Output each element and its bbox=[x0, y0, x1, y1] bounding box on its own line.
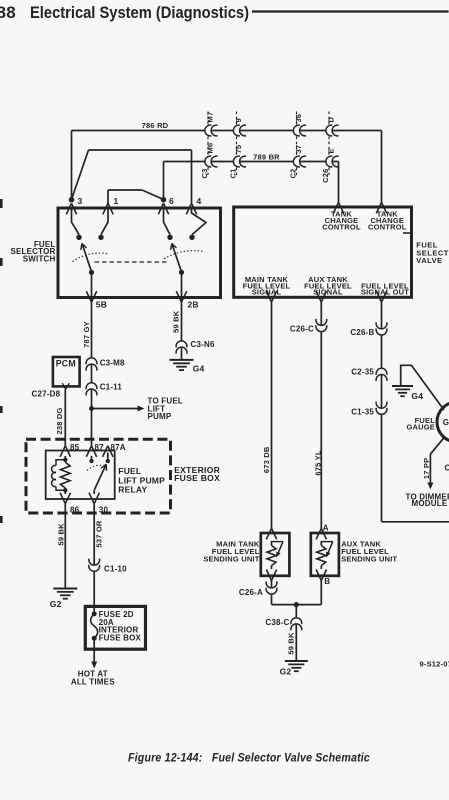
svg-text:M7: M7 bbox=[206, 112, 215, 123]
svg-text:SWITCH: SWITCH bbox=[23, 255, 56, 264]
svg-text:FUSE BOX: FUSE BOX bbox=[99, 634, 142, 643]
svg-text:88: 88 bbox=[0, 3, 16, 22]
svg-text:5B: 5B bbox=[96, 300, 107, 310]
svg-text:789 BR: 789 BR bbox=[253, 152, 280, 161]
svg-text:RELAY: RELAY bbox=[118, 485, 147, 495]
svg-text:PUMP: PUMP bbox=[148, 412, 172, 421]
svg-text:SENDING UNIT: SENDING UNIT bbox=[203, 554, 259, 563]
svg-text:VALVE: VALVE bbox=[416, 256, 442, 265]
svg-text:86: 86 bbox=[70, 505, 80, 514]
svg-text:PCM: PCM bbox=[56, 359, 76, 369]
svg-text:G4: G4 bbox=[193, 363, 205, 373]
svg-text:C1-35: C1-35 bbox=[351, 407, 374, 416]
svg-text:87A: 87A bbox=[111, 443, 126, 452]
svg-text:59 BK: 59 BK bbox=[56, 523, 65, 546]
svg-text:C2: C2 bbox=[289, 169, 298, 179]
svg-text:9: 9 bbox=[234, 118, 243, 122]
svg-text:3: 3 bbox=[78, 196, 83, 206]
svg-text:M6: M6 bbox=[206, 143, 215, 154]
svg-text:G2: G2 bbox=[280, 667, 292, 677]
svg-text:C26-A: C26-A bbox=[239, 588, 263, 597]
svg-text:85: 85 bbox=[70, 443, 80, 452]
svg-text:C38-C: C38-C bbox=[265, 618, 289, 627]
svg-text:C2-35: C2-35 bbox=[351, 368, 374, 377]
svg-text:87: 87 bbox=[95, 443, 105, 452]
svg-text:C26: C26 bbox=[321, 169, 330, 183]
svg-text:75: 75 bbox=[234, 145, 243, 154]
svg-text:D: D bbox=[327, 117, 336, 123]
svg-text:59 BK: 59 BK bbox=[286, 632, 295, 655]
svg-text:CONTROL: CONTROL bbox=[368, 223, 407, 232]
svg-text:C1-10: C1-10 bbox=[104, 564, 127, 573]
svg-text:ALL TIMES: ALL TIMES bbox=[71, 677, 115, 686]
svg-text:G2: G2 bbox=[50, 599, 62, 609]
svg-text:C26-B: C26-B bbox=[350, 328, 374, 337]
svg-text:C1-11: C1-11 bbox=[100, 382, 123, 391]
svg-text:GA: GA bbox=[443, 418, 449, 427]
svg-text:G4: G4 bbox=[411, 391, 423, 401]
svg-text:B: B bbox=[324, 577, 330, 586]
svg-text:17 PP: 17 PP bbox=[422, 458, 431, 479]
svg-text:6: 6 bbox=[169, 196, 174, 206]
svg-text:C3-N6: C3-N6 bbox=[191, 340, 215, 349]
svg-text:537 OR: 537 OR bbox=[95, 520, 104, 547]
svg-text:675 YL: 675 YL bbox=[313, 450, 322, 475]
svg-text:MODULE: MODULE bbox=[412, 499, 448, 508]
svg-text:C3: C3 bbox=[200, 169, 209, 179]
svg-text:59 BK: 59 BK bbox=[172, 310, 181, 333]
svg-text:C27-D8: C27-D8 bbox=[32, 389, 61, 398]
svg-text:E: E bbox=[327, 148, 336, 153]
svg-text:GAUGE: GAUGE bbox=[406, 423, 435, 432]
svg-text:2B: 2B bbox=[188, 300, 199, 310]
svg-text:36: 36 bbox=[294, 114, 303, 123]
svg-text:C26-C: C26-C bbox=[290, 324, 314, 333]
svg-text:Figure 12-144: Fuel Selector: Figure 12-144: Fuel Selector Valve Schem… bbox=[128, 753, 370, 765]
svg-text:C2: C2 bbox=[445, 464, 449, 473]
svg-text:37: 37 bbox=[294, 145, 303, 154]
svg-text:C1: C1 bbox=[229, 169, 238, 179]
svg-text:786 RD: 786 RD bbox=[142, 121, 169, 130]
svg-text:238 DG: 238 DG bbox=[55, 407, 64, 434]
svg-text:673 DB: 673 DB bbox=[262, 446, 271, 473]
svg-text:787 GY: 787 GY bbox=[82, 321, 91, 348]
svg-text:4: 4 bbox=[197, 196, 202, 206]
svg-text:C3-M8: C3-M8 bbox=[100, 358, 125, 367]
svg-text:9-S12-07: 9-S12-07 bbox=[420, 660, 449, 669]
svg-text:CONTROL: CONTROL bbox=[322, 223, 361, 232]
svg-text:1: 1 bbox=[114, 196, 119, 206]
svg-text:30: 30 bbox=[99, 505, 109, 514]
svg-text:SENDING UNIT: SENDING UNIT bbox=[341, 554, 397, 563]
svg-text:FUSE BOX: FUSE BOX bbox=[174, 473, 220, 483]
svg-text:Electrical System (Diagnostics: Electrical System (Diagnostics) bbox=[30, 4, 249, 22]
svg-text:A: A bbox=[323, 524, 329, 533]
